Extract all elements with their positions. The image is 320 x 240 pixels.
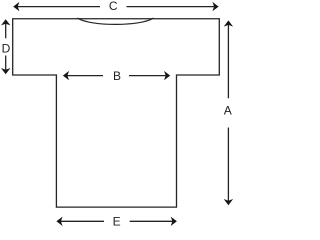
t-shirt outline — [13, 19, 220, 207]
collar curve — [77, 18, 153, 24]
dimension arrow A line lower — [227, 128, 229, 202]
dimension arrow E line right — [130, 220, 174, 222]
dimension arrow A line upper — [227, 24, 229, 98]
arrowhead E right — [171, 217, 177, 226]
arrowhead A down — [224, 199, 233, 205]
dimension arrow C line left — [17, 6, 100, 8]
dimension arrow D line lower — [5, 56, 7, 71]
svg-text:C: C — [109, 0, 118, 13]
arrowhead A up — [224, 20, 233, 26]
arrowhead B right — [164, 71, 170, 80]
arrowhead D down — [1, 68, 10, 74]
dimension arrow B line left — [67, 75, 104, 77]
dimension arrow B line right — [129, 75, 167, 77]
svg-text:E: E — [113, 215, 121, 229]
arrowhead C right — [212, 2, 218, 11]
dimension arrow D line upper — [5, 23, 7, 39]
dimension arrow E line left — [60, 220, 104, 222]
svg-text:A: A — [224, 104, 232, 118]
arrowhead E left — [56, 217, 62, 226]
svg-text:B: B — [113, 69, 121, 83]
dimension arrow C line right — [127, 6, 216, 8]
arrowhead C left — [13, 2, 19, 11]
svg-text:D: D — [2, 41, 11, 55]
arrowhead D up — [1, 19, 10, 25]
arrowhead B left — [63, 71, 69, 80]
